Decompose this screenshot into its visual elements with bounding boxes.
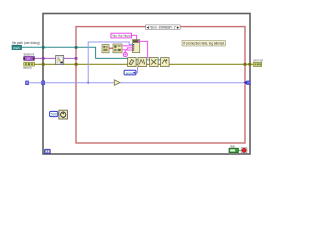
constant: append mode (blue enum) <box>124 70 136 75</box>
node: Close File <box>150 58 159 67</box>
while loop border <box>43 14 250 155</box>
loop condition terminal (stop sign) <box>241 148 247 153</box>
node: Get Date/Time In Seconds <box>102 45 109 53</box>
wire: stop to condition (green) <box>238 149 241 151</box>
tunnel: error on loop left border <box>42 63 45 66</box>
wire: time string (pink) <box>122 48 133 50</box>
wire: count to shift register (blue) <box>29 82 42 84</box>
tunnel: session on loop border <box>42 57 45 60</box>
svg-text:file path (use dialog): file path (use dialog) <box>12 41 40 45</box>
iteration terminal i <box>44 149 50 153</box>
node: increment (+1) <box>114 80 120 86</box>
subVI U1 (driver VI on session/error wires) <box>56 55 64 64</box>
terminal: VISA session control <box>23 56 34 60</box>
wire: space constant to format (pink) <box>125 50 132 53</box>
tunnel: error on loop right border <box>248 63 251 66</box>
terminal: error in control <box>24 62 35 66</box>
wire: file refnum segment C-D (teal) <box>158 59 161 61</box>
wire: count main run (blue) <box>45 82 244 84</box>
svg-text:◀ "Error -STANDBY- 1" ▶: ◀ "Error -STANDBY- 1" ▶ <box>147 25 181 29</box>
constant: 500 ms <box>50 111 58 116</box>
constant: format string "%s %s %s" <box>111 33 132 38</box>
case selector label <box>146 25 181 29</box>
shift register left (blue) <box>42 81 45 85</box>
tunnel: error on case right border <box>244 63 247 66</box>
terminal: numeric control (count) <box>26 81 29 85</box>
tunnel: error on case left border <box>75 63 78 66</box>
node: Wait Until Next ms Multiple <box>59 110 68 119</box>
node: error cleanup VI <box>161 58 170 67</box>
label: error out <box>253 59 263 63</box>
svg-text:error out: error out <box>253 59 263 63</box>
wire: formatted text (pink) to write node <box>140 41 151 57</box>
svg-text:%s %s %s\n: %s %s %s\n <box>112 34 131 38</box>
node: Format Into String <box>133 40 140 53</box>
wire: file refnum segment A-B (teal) <box>136 59 138 61</box>
wire: loop count branch (blue) to format <box>88 42 132 83</box>
label: file path (use dialog) <box>12 41 40 45</box>
tunnel: path on case border <box>75 46 78 49</box>
svg-text:If connection fails, log attem: If connection fails, log attempt <box>183 42 224 46</box>
svg-text:Session In: Session In <box>24 53 35 57</box>
label: stop <box>230 145 235 149</box>
node: Write to Text File <box>138 58 147 67</box>
svg-text:I/O: I/O <box>27 57 30 61</box>
wire: date string (pink) <box>122 45 133 47</box>
wire: append constant to write node (blue) <box>136 67 138 73</box>
wire: file refnum segment B-C (teal) <box>147 59 150 61</box>
wire: VISA session (purple) <box>35 57 76 59</box>
node: Get Date/Time String <box>113 44 122 53</box>
terminal: error out indicator <box>253 63 261 67</box>
case structure border <box>76 27 245 143</box>
constant: space string (pink circle) <box>123 53 127 57</box>
tunnel: path on loop border <box>42 46 45 49</box>
shift register right (blue) <box>247 81 250 85</box>
terminal: stop boolean <box>229 148 238 152</box>
node: Open/Create/Replace File <box>128 58 137 67</box>
tunnel: count on case right border <box>243 81 246 85</box>
label: error in <box>23 66 31 70</box>
label: comment "If connection fails, log attempt" <box>182 40 226 46</box>
svg-text:error in: error in <box>23 66 31 70</box>
label: Session In <box>24 53 35 57</box>
svg-text:Path: Path <box>13 46 20 50</box>
junction dot on blue wire <box>87 82 89 84</box>
wire: file path (teal) <box>22 47 128 58</box>
wire: timestamp (node1 to node2) <box>109 47 113 49</box>
svg-text:500: 500 <box>51 113 57 117</box>
terminal: file path control <box>12 45 22 50</box>
wire: format string to node (pink) <box>132 35 137 40</box>
tunnel: session on case border <box>75 57 78 60</box>
wire: error (olive) main run <box>35 63 254 65</box>
